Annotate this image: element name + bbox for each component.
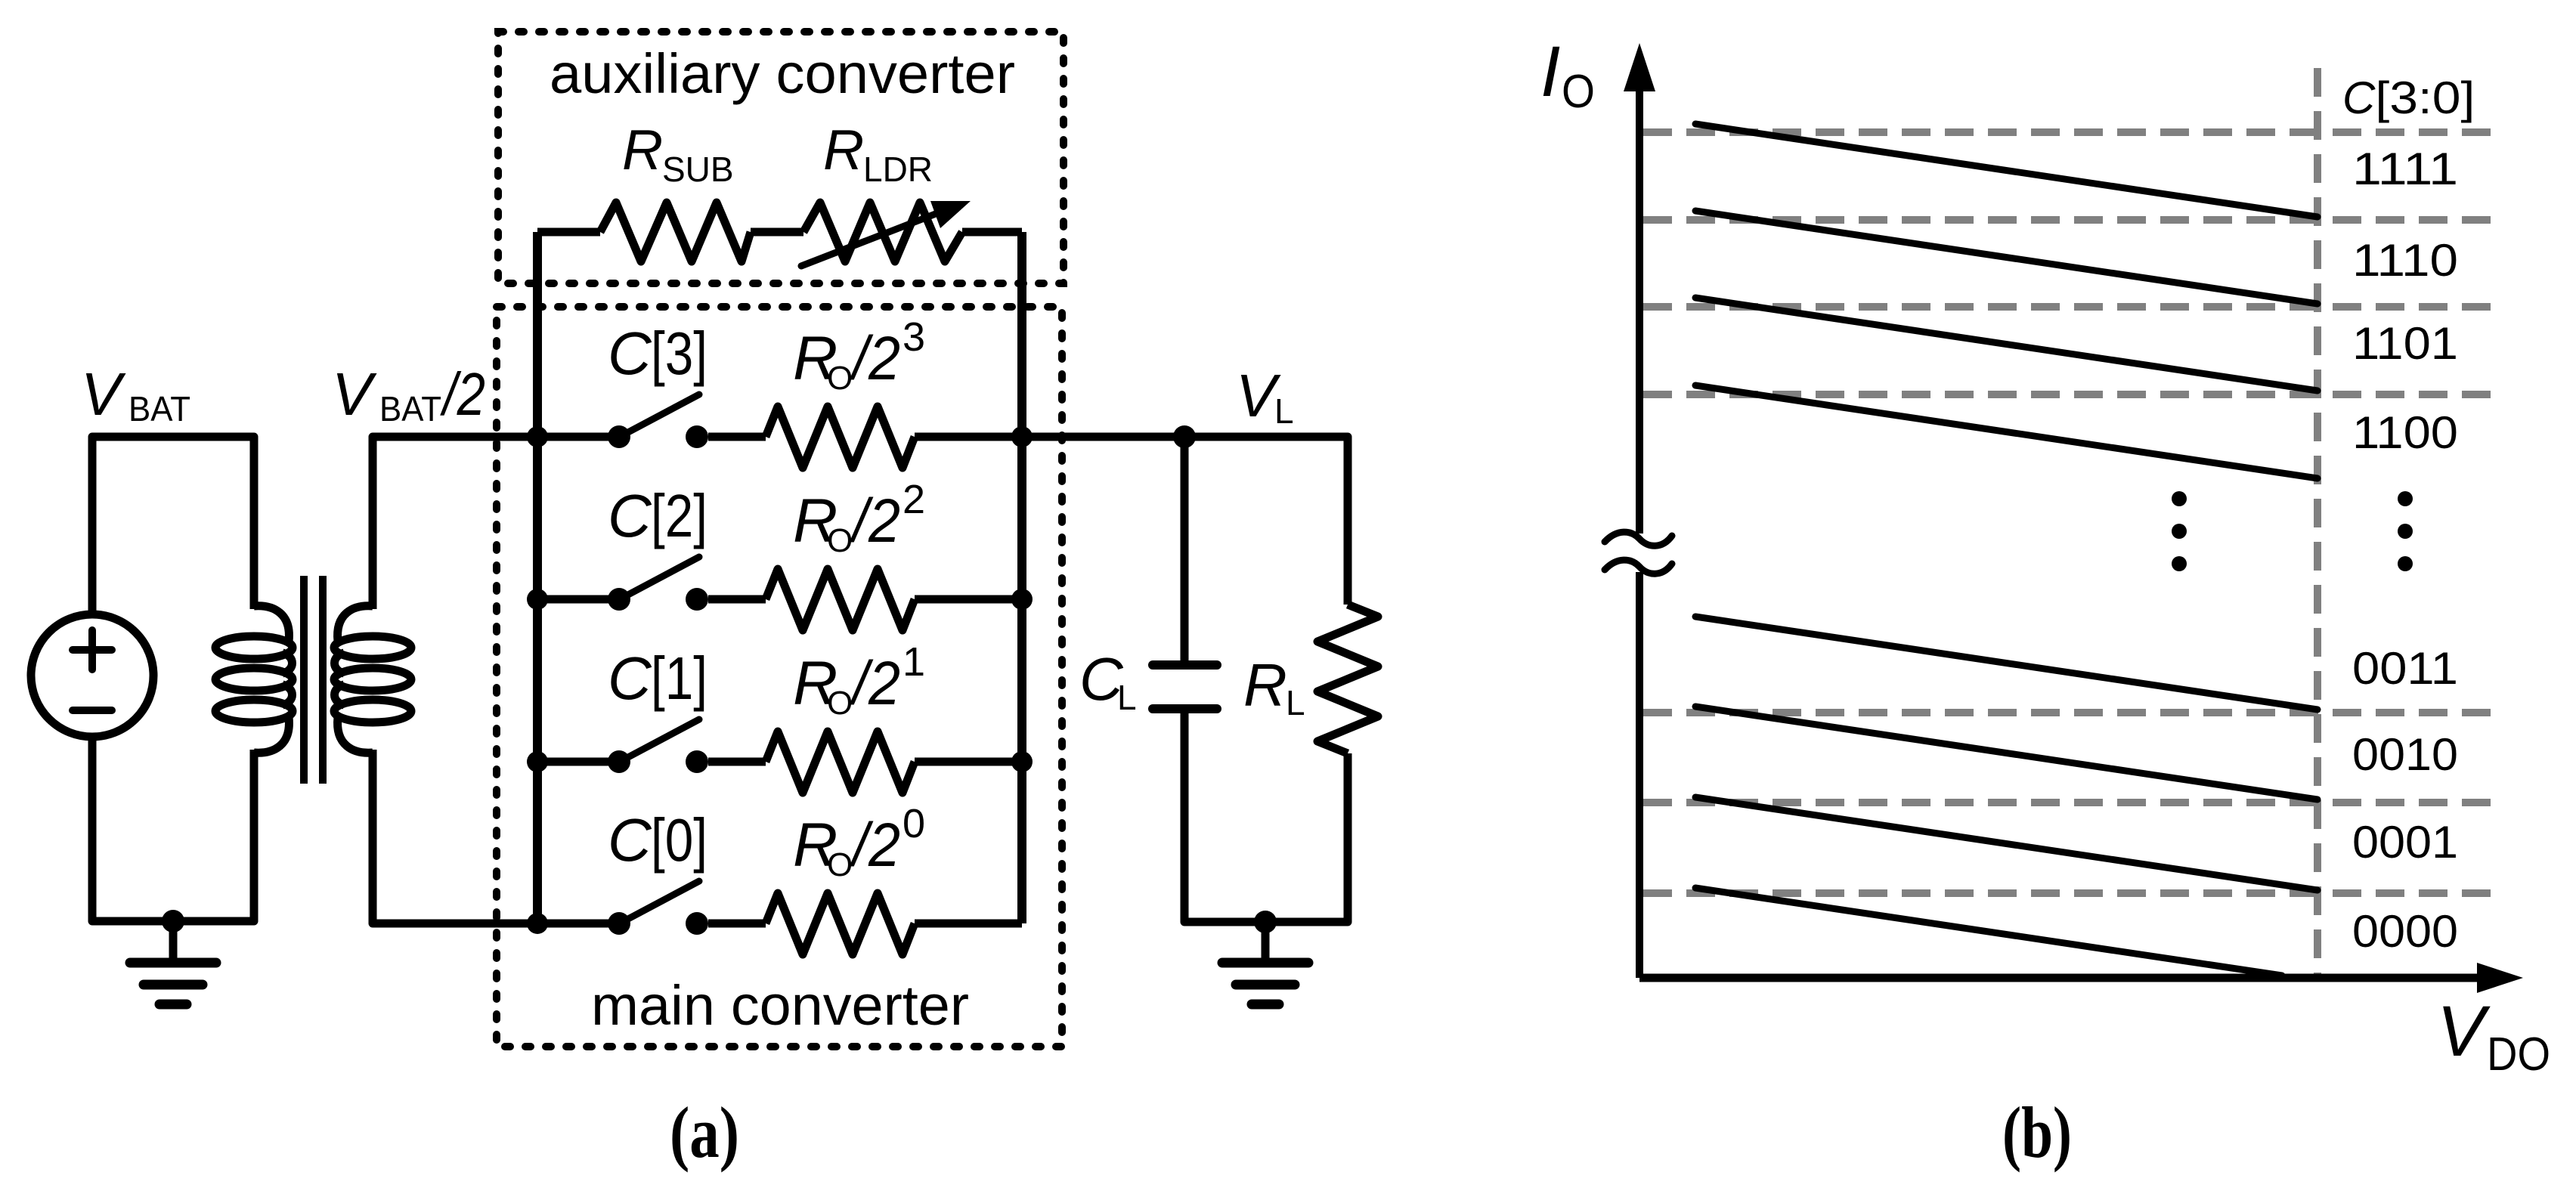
curve 1110 <box>1695 211 2317 304</box>
svg-text:/2: /2 <box>849 811 900 880</box>
wire secondary top VBAT/2 <box>373 437 537 609</box>
gridline dashed y406 <box>1643 303 2500 311</box>
svg-text:BAT: BAT <box>128 389 190 428</box>
curve 0011 <box>1695 617 2317 710</box>
resistor RL <box>1317 605 1378 922</box>
wire C0 left <box>537 920 619 928</box>
label RO/2^3 <box>793 314 925 397</box>
x-axis VDO <box>1639 963 2523 993</box>
label C[0] <box>608 806 707 874</box>
wire C3 left <box>537 433 619 441</box>
left bus <box>533 232 542 923</box>
wire C2 left <box>537 595 619 604</box>
svg-text:C: C <box>608 320 652 387</box>
curve 1100 <box>1695 385 2317 478</box>
label RO/2^1 <box>793 639 925 722</box>
svg-text:C[3:0]: C[3:0] <box>2342 73 2475 123</box>
right bus <box>1017 232 1026 923</box>
resistor RSUB <box>600 203 751 261</box>
wire C0 mid <box>708 920 766 928</box>
svg-text:[0]: [0] <box>651 806 707 874</box>
node VL <box>1173 425 1196 448</box>
gridline dashed y943 <box>1643 709 2500 716</box>
svg-text:[1]: [1] <box>651 645 707 712</box>
svg-text:/2: /2 <box>849 487 900 555</box>
svg-text:R: R <box>622 118 663 181</box>
svg-text:/2: /2 <box>849 649 900 718</box>
wire aux row middle <box>751 228 803 237</box>
svg-text:/2: /2 <box>849 324 900 393</box>
svg-text:L: L <box>1286 683 1305 722</box>
svg-text:O: O <box>827 522 853 559</box>
node dot battery ground <box>162 910 184 932</box>
svg-text:O: O <box>827 685 853 722</box>
curve 0010 <box>1695 707 2317 799</box>
axis break symbol <box>1605 532 1672 574</box>
capacitor CL <box>1153 437 1217 922</box>
label VBAT <box>81 360 190 428</box>
wire C0 right <box>915 920 1022 928</box>
svg-text:(b): (b) <box>2002 1092 2072 1173</box>
ellipsis dots middle column <box>2172 491 2187 571</box>
wire C1 right <box>915 758 1022 766</box>
label VBAT/2 <box>332 360 485 428</box>
svg-text:V: V <box>2437 991 2491 1072</box>
svg-text:C: C <box>608 645 652 712</box>
label C[3] <box>608 320 707 387</box>
svg-text:0011: 0011 <box>2352 643 2458 694</box>
vertical dashed guide <box>2314 68 2321 974</box>
svg-text:BAT: BAT <box>379 389 441 428</box>
ellipsis dots label column <box>2398 491 2413 571</box>
ground (load side) <box>1222 922 1308 1004</box>
transformer T1 primary winding <box>215 606 293 753</box>
switch C[1] <box>608 719 708 773</box>
auxiliary converter box <box>498 32 1064 283</box>
switch C[0] <box>608 881 708 935</box>
label RL <box>1243 651 1305 722</box>
label RLDR <box>823 118 933 189</box>
wire aux row left <box>537 228 600 237</box>
label VDO <box>2437 991 2550 1081</box>
node bus C1 left <box>527 751 548 772</box>
svg-text:O: O <box>1562 66 1595 118</box>
wire C1 mid <box>708 758 766 766</box>
resistor RO/2^1 <box>766 731 915 793</box>
label RO/2^2 <box>793 477 925 559</box>
wire VL output <box>1022 437 1348 605</box>
wire aux row right <box>962 228 1022 237</box>
gridline dashed y175 <box>1643 128 2500 136</box>
svg-text:LDR: LDR <box>863 150 933 189</box>
switch C[2] <box>608 557 708 611</box>
RLDR arrow <box>801 201 971 266</box>
svg-text:R: R <box>823 118 864 181</box>
svg-text:2: 2 <box>903 477 925 522</box>
wire C2 right <box>915 595 1022 604</box>
node bus C1 right <box>1011 751 1033 772</box>
svg-text:L: L <box>1117 678 1137 717</box>
ground (battery side) <box>130 921 216 1004</box>
label RSUB <box>622 118 734 189</box>
svg-text:0000: 0000 <box>2352 906 2458 957</box>
label C[2] <box>608 482 707 549</box>
gridline dashed y522 <box>1643 391 2500 398</box>
wire secondary bottom <box>373 750 537 923</box>
svg-text:O: O <box>827 360 853 397</box>
wire load bottom <box>1184 884 1348 922</box>
svg-text:0010: 0010 <box>2352 729 2458 780</box>
gridline dashed y1062 <box>1643 799 2500 806</box>
node bus C3 left <box>527 426 548 447</box>
wire C2 mid <box>708 595 766 604</box>
gridline dashed y291 <box>1643 216 2500 224</box>
wire VBAT bottom loop <box>92 737 254 921</box>
voltage source VBAT <box>31 614 153 737</box>
svg-text:O: O <box>827 846 853 883</box>
node bus C0 left <box>527 913 548 934</box>
svg-text:main converter: main converter <box>591 974 969 1037</box>
wire C3 right <box>915 433 1022 441</box>
svg-text:1110: 1110 <box>2352 235 2458 286</box>
svg-text:DO: DO <box>2487 1028 2550 1081</box>
node bus C2 left <box>527 589 548 610</box>
resistor RO/2^0 <box>766 893 915 954</box>
svg-text:0: 0 <box>903 801 925 846</box>
svg-text:[3]: [3] <box>651 320 707 387</box>
curve 0001 <box>1695 797 2317 890</box>
node bus C3 right <box>1011 426 1033 447</box>
curve 1101 <box>1695 298 2317 391</box>
node bus C2 right <box>1011 589 1033 610</box>
svg-text:/2: /2 <box>440 360 485 428</box>
svg-text:R: R <box>1243 651 1287 719</box>
y-axis IO <box>1624 43 1655 978</box>
svg-text:auxiliary converter: auxiliary converter <box>550 42 1015 105</box>
main converter box <box>497 307 1062 1047</box>
svg-text:1100: 1100 <box>2352 407 2458 458</box>
label VL <box>1236 362 1294 431</box>
resistor RLDR (variable) <box>803 203 962 261</box>
svg-text:I: I <box>1540 32 1560 112</box>
gridline dashed y1182 <box>1643 889 2500 897</box>
transformer T1 core <box>304 576 323 784</box>
switch C[3] <box>608 394 708 448</box>
wire C3 mid <box>708 433 766 441</box>
svg-text:V: V <box>332 360 377 428</box>
wire C1 left <box>537 758 619 766</box>
svg-text:L: L <box>1274 391 1294 431</box>
svg-text:[2]: [2] <box>651 482 707 549</box>
resistor RO/2^2 <box>766 569 915 630</box>
label CL <box>1079 645 1137 717</box>
svg-text:1: 1 <box>903 639 925 685</box>
svg-text:0001: 0001 <box>2352 817 2458 868</box>
resistor RO/2^3 <box>766 407 915 468</box>
label RO/2^0 <box>793 801 925 883</box>
svg-text:1111: 1111 <box>2352 144 2458 194</box>
svg-text:SUB: SUB <box>662 150 734 189</box>
label C[1] <box>608 645 707 712</box>
svg-text:V: V <box>81 360 126 428</box>
label IO <box>1540 32 1595 118</box>
svg-text:1101: 1101 <box>2352 318 2458 369</box>
svg-text:3: 3 <box>903 314 925 360</box>
svg-text:C: C <box>608 482 652 549</box>
wire VBAT top loop <box>92 437 254 614</box>
svg-text:C: C <box>608 806 652 874</box>
curve 1111 <box>1695 124 2317 217</box>
svg-text:(a): (a) <box>670 1092 739 1173</box>
transformer T1 secondary winding <box>334 606 411 753</box>
node dot load ground <box>1254 911 1277 933</box>
curve 0000 <box>1695 888 2282 976</box>
